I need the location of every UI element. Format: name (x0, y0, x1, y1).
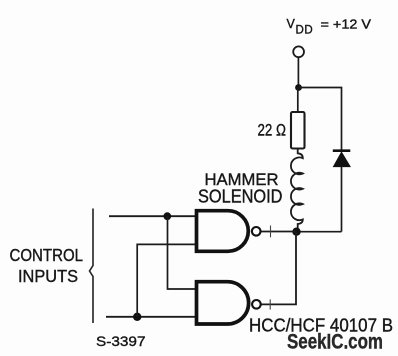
svg-text:22 Ω: 22 Ω (258, 121, 287, 139)
svg-text:DD: DD (296, 25, 314, 37)
svg-text:= +12 V: = +12 V (321, 18, 372, 32)
svg-text:V: V (287, 17, 296, 31)
svg-text:INPUTS: INPUTS (18, 266, 78, 286)
svg-text:CONTROL: CONTROL (10, 245, 84, 265)
svg-text:SeekIC.com: SeekIC.com (287, 330, 383, 354)
svg-text:S-3397: S-3397 (96, 333, 146, 349)
svg-text:SOLENOID: SOLENOID (198, 187, 283, 207)
